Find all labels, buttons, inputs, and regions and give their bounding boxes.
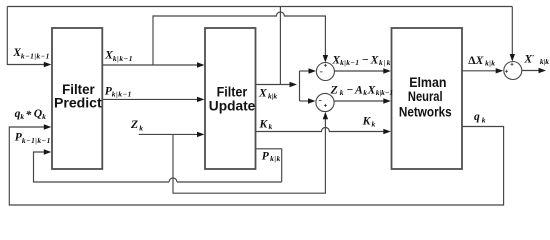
wire q_k feedback loop from Elman NN to Filter Predict bbox=[9, 124, 503, 205]
wire Z_k input into Filter Update bbox=[139, 132, 205, 137]
summer C2 bbox=[316, 93, 334, 111]
wire X_k|k-1 from Filter Predict to Filter Update bbox=[102, 62, 204, 67]
svg-text:Filter: Filter bbox=[217, 85, 248, 100]
block Filter Predict bbox=[52, 28, 102, 169]
svg-text:−: − bbox=[362, 53, 369, 66]
svg-text:−: − bbox=[346, 83, 353, 96]
svg-text:Networks: Networks bbox=[399, 104, 452, 119]
svg-text:Predict: Predict bbox=[54, 95, 102, 110]
wire output X'_k|k from summer C3 bbox=[522, 68, 546, 73]
wire summer C2 output to Elman NN bbox=[334, 98, 391, 103]
wire P_k|k feedback loop to P_k-1|k-1 input (hop at x=173) bbox=[34, 149, 282, 182]
wire delta X from Elman NN to summer C3 bbox=[462, 68, 503, 73]
wire vertical distribution to summer left inputs bbox=[300, 68, 317, 103]
wire branch X_k|k-1 up and over to summer C1 top (hop at x=280) bbox=[153, 12, 328, 65]
wire summer C1 output to Elman NN bbox=[334, 68, 390, 73]
wire right branch down into summer C3 bbox=[510, 7, 515, 62]
svg-text:*: * bbox=[26, 108, 32, 121]
wire P_k|k-1 from Filter Predict to Filter Update bbox=[102, 97, 204, 102]
wire top feedback X_k|k from Filter Update output up and across bbox=[7, 7, 512, 88]
svg-text:Elman: Elman bbox=[409, 75, 446, 90]
block Elman Neural Networks U3 bbox=[392, 28, 463, 169]
wire K_k from Filter Update to Elman NN (hop at x=325) bbox=[256, 128, 391, 135]
svg-text:Neural: Neural bbox=[408, 89, 443, 104]
block Filter Update bbox=[205, 28, 256, 169]
summer C3 bbox=[504, 62, 522, 80]
wire Z_k branch down along bottom and up into summer C2 bottom bbox=[173, 112, 328, 193]
svg-text:Update: Update bbox=[209, 99, 256, 114]
summer C1 bbox=[316, 63, 334, 81]
wire left feedback to X_k-1|k-1 input bbox=[7, 7, 51, 68]
